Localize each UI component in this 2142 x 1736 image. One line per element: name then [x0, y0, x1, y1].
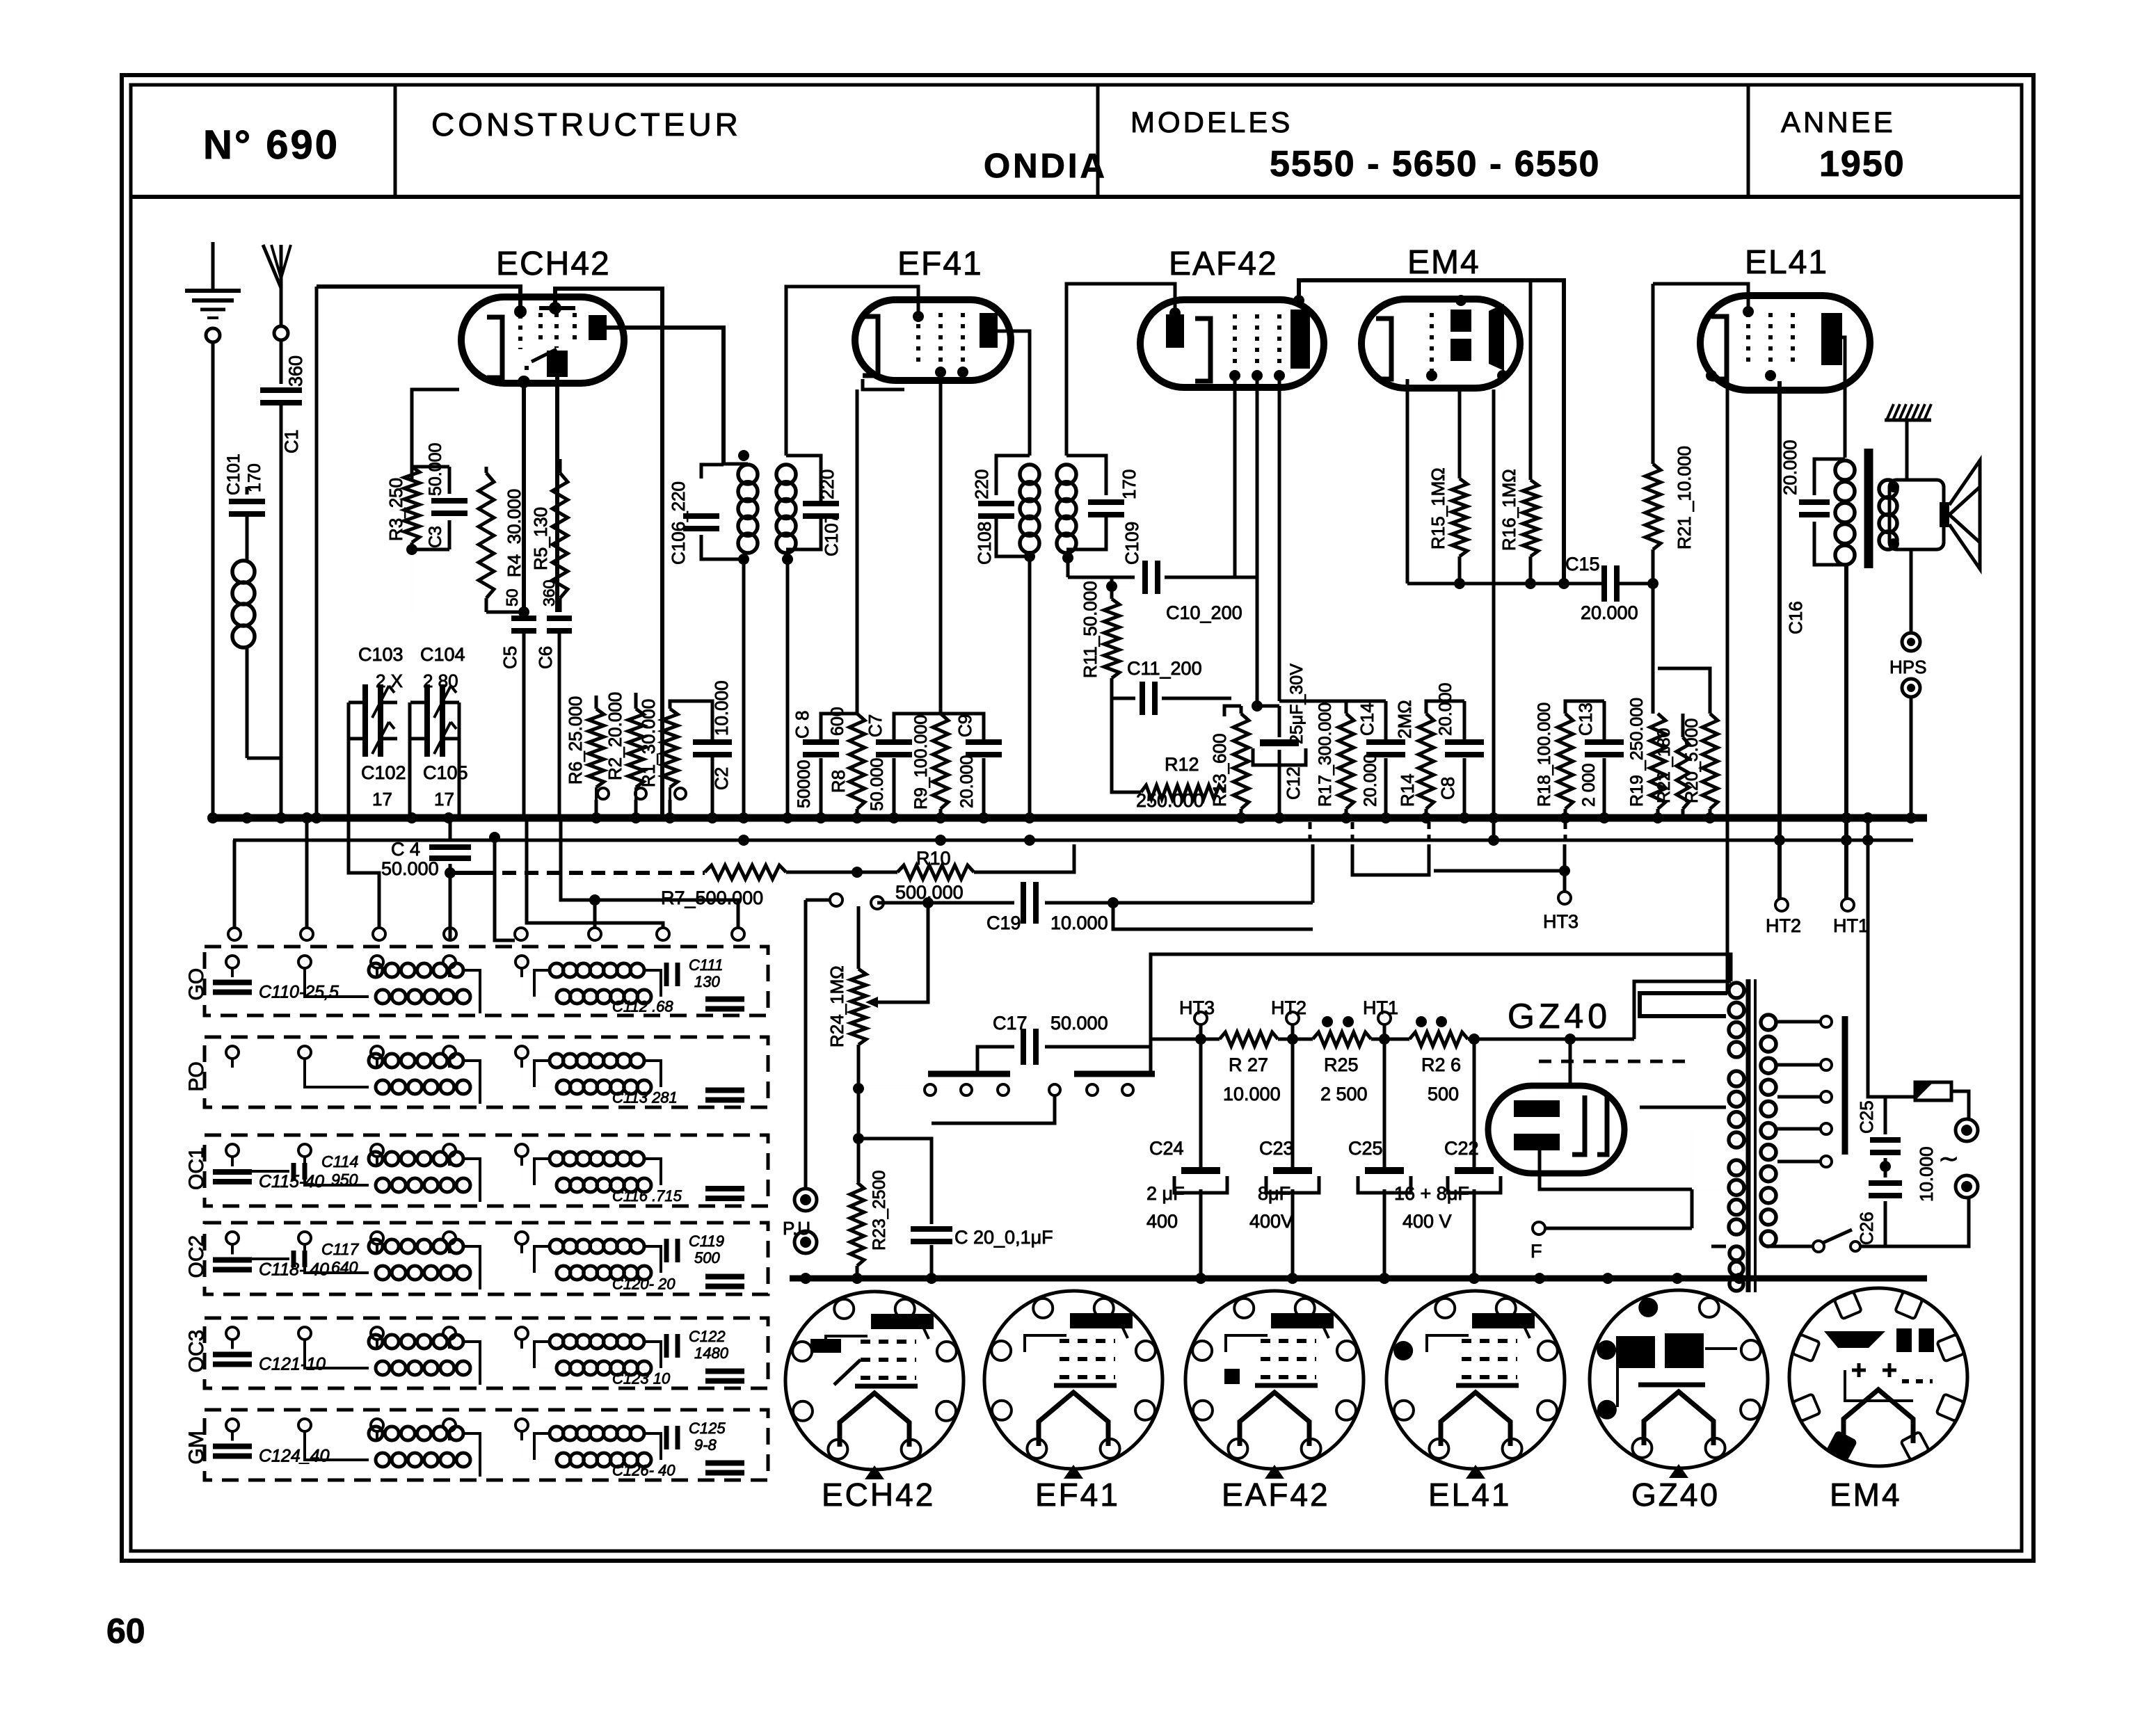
- wire pot feed: [877, 901, 983, 905]
- coil band OC2 transformer 2: [522, 1239, 661, 1280]
- svg-text:20.000: 20.000: [957, 755, 977, 808]
- EF41 grid 2: [938, 313, 943, 365]
- wire EAF42 pin drops: [1235, 376, 1279, 706]
- capacitor C6 360: [535, 580, 572, 818]
- coil band OC2 transformer 1: [305, 1239, 480, 1289]
- coil band OC3 capacitors: [213, 1349, 326, 1374]
- svg-text:EM4: EM4: [1830, 1477, 1902, 1513]
- EF41 grid 3: [961, 313, 965, 365]
- svg-text:220: 220: [971, 469, 992, 499]
- svg-text:C14: C14: [1357, 702, 1377, 736]
- svg-text:C112 .68: C112 .68: [612, 998, 673, 1015]
- output transformer secondary: [1879, 480, 1897, 549]
- socket GZ40: [1590, 1290, 1768, 1478]
- wire hatch to speaker: [1905, 420, 1909, 480]
- svg-text:ANNEE: ANNEE: [1781, 106, 1896, 138]
- socket ECH42 internals: [810, 1314, 934, 1386]
- svg-text:C1: C1: [281, 429, 302, 453]
- terminal PU top: [794, 1189, 817, 1211]
- feed wire 4: [449, 928, 451, 940]
- GZ40 dashed link: [1539, 1060, 1691, 1063]
- capacitor C22: [1444, 1039, 1501, 1278]
- svg-text:ECH42: ECH42: [822, 1477, 935, 1513]
- wire switch to mains: [1860, 1198, 1969, 1246]
- svg-text:R11_50.000: R11_50.000: [1080, 581, 1101, 678]
- IFT1 primary coil: [738, 455, 758, 553]
- wire c26 bottom: [1860, 1246, 1885, 1247]
- capacitor C26: [1856, 1146, 1937, 1246]
- socket EAF42 label: [1222, 1477, 1330, 1513]
- coil band GO transformer 1: [305, 963, 480, 1013]
- svg-text:50000: 50000: [794, 759, 814, 808]
- wire R4 bottom junction: [486, 606, 529, 618]
- wire R19 bracket: [1658, 668, 1683, 714]
- wire GZ40 filament: [1540, 1150, 1692, 1189]
- header text 1950: [1819, 144, 1905, 184]
- svg-text:1480: 1480: [694, 1344, 729, 1362]
- wire R7 to R10: [786, 867, 897, 878]
- coil band GO box: [185, 947, 768, 1015]
- svg-text:8μF: 8μF: [1258, 1183, 1290, 1204]
- capacitor C7 50.000: [865, 714, 941, 818]
- coil band GO right capacitors: [612, 956, 744, 1015]
- label EM4: [1407, 244, 1480, 281]
- coil band OC2 capacitors: [213, 1240, 359, 1280]
- svg-text:R2_20.000: R2_20.000: [605, 692, 625, 780]
- svg-text:R21 _10.000: R21 _10.000: [1674, 446, 1695, 549]
- capacitor C109 170: [1066, 456, 1142, 565]
- speaker cone: [1949, 460, 1980, 569]
- secondary tap terminals: [1821, 1016, 1832, 1167]
- capacitor C25b: [1856, 1097, 1901, 1152]
- wire HT1 to fuse row: [1868, 818, 1885, 1097]
- GZ40 cathode 1: [1572, 1095, 1585, 1155]
- EAF42 cathode: [1195, 319, 1210, 381]
- label GZ40: [1508, 997, 1611, 1036]
- wire top to C101: [216, 487, 281, 495]
- EAF42 diode plate: [1166, 314, 1184, 348]
- svg-text:R24_1MΩ: R24_1MΩ: [826, 965, 847, 1047]
- svg-text:C3: C3: [426, 526, 445, 548]
- header divider col1: [394, 85, 397, 197]
- svg-text:R14: R14: [1397, 773, 1418, 807]
- wire IFT1 secondary bottom to bus: [782, 554, 793, 818]
- tube EL41 envelope: [1700, 296, 1870, 390]
- resistor R22 180: [1654, 714, 1689, 818]
- coil band GO terminals: [226, 956, 528, 977]
- terminal HT2 psu: [1271, 997, 1306, 1039]
- coil band OC1 transformer 2: [522, 1152, 661, 1192]
- wire R10 right: [974, 844, 1074, 872]
- terminal mains bottom: [1956, 1175, 1978, 1198]
- wire C12 top: [1252, 700, 1279, 712]
- capacitor C11 200: [1112, 658, 1231, 715]
- svg-text:C123 10: C123 10: [612, 1370, 671, 1388]
- svg-text:C110-25,5: C110-25,5: [259, 983, 339, 1002]
- wire R14 C8 bracket: [1426, 701, 1464, 714]
- resistor R1 30.000: [638, 699, 678, 787]
- svg-text:∼: ∼: [1938, 1144, 1959, 1173]
- svg-text:C 20_0,1μF: C 20_0,1μF: [954, 1227, 1053, 1248]
- svg-text:C13: C13: [1575, 702, 1596, 736]
- coil band OC1 box: [185, 1135, 768, 1206]
- wire IFT1 primary bottom to bus: [742, 559, 746, 818]
- wire EL41 cathode loop: [1640, 993, 1727, 1016]
- EF41 cathode: [863, 316, 878, 376]
- svg-text:5550 - 5650 - 6550: 5550 - 5650 - 6550: [1270, 144, 1600, 184]
- EF41 anode: [980, 313, 998, 348]
- coil band OC1 transformer 1: [305, 1152, 480, 1202]
- output transformer primary: [1835, 460, 1855, 565]
- svg-text:EL41: EL41: [1745, 244, 1828, 281]
- capacitor C16 20.000: [1780, 440, 1845, 634]
- svg-text:360: 360: [540, 580, 558, 606]
- wire R16 bottom: [1529, 556, 1533, 584]
- capacitor C106 220: [668, 481, 719, 565]
- wire ECH42 anode to IFT1: [607, 328, 724, 464]
- EM4 grid: [1430, 313, 1434, 372]
- svg-text:1950: 1950: [1819, 144, 1905, 184]
- resistor R3 250: [385, 467, 419, 542]
- chassis hatch: [1885, 404, 1931, 420]
- wire R24 bottom: [853, 1045, 864, 1182]
- wire IFT1 primary top: [724, 450, 749, 464]
- AVC line: [1407, 578, 1603, 589]
- svg-text:C5: C5: [499, 646, 520, 669]
- EAF42 grid 1: [1233, 314, 1237, 369]
- feed wire 6: [527, 821, 663, 928]
- svg-text:17: 17: [434, 789, 454, 810]
- tube EM4 envelope: [1361, 299, 1520, 388]
- tube ECH42 envelope: [461, 297, 624, 383]
- svg-text:C106_220: C106_220: [668, 481, 689, 565]
- wire EM4 column: [1492, 389, 1496, 840]
- wire contact drop: [932, 1095, 1055, 1139]
- trimmer box wires: [349, 680, 459, 739]
- elbow U wire: [1352, 844, 1429, 875]
- resistor R14 2M: [1394, 700, 1434, 818]
- dashed stub c: [1428, 822, 1431, 843]
- terminal HT1 psu: [1363, 997, 1398, 1039]
- svg-text:R5_130: R5_130: [530, 507, 551, 570]
- capacitor C8 20.000: [1436, 683, 1484, 818]
- socket EM4: [1789, 1288, 1967, 1466]
- coil band OC1 terminals: [226, 1144, 528, 1166]
- resistor R12 250.000: [1112, 698, 1224, 811]
- socket EM4 label: [1830, 1477, 1902, 1513]
- label EL41: [1745, 244, 1828, 281]
- svg-text:50.000: 50.000: [1050, 1013, 1108, 1034]
- wire R1 C2 top: [636, 701, 712, 739]
- svg-text:C105: C105: [423, 762, 468, 783]
- wire to HT3 terminal: [1434, 865, 1570, 876]
- svg-text:HT3: HT3: [1179, 997, 1215, 1018]
- svg-text:N° 690: N° 690: [203, 122, 339, 168]
- svg-text:C111: C111: [689, 956, 723, 974]
- trimmer C102: [349, 721, 397, 757]
- speaker frame: [1888, 480, 1944, 549]
- resistor R18 100.000: [1535, 701, 1573, 818]
- resistor R21 10.000: [1645, 446, 1695, 549]
- coil band GM box: [185, 1410, 768, 1480]
- outer border frame: [122, 75, 2033, 1561]
- capacitor C17 50.000: [977, 1013, 1151, 1074]
- coil band PO capacitors: [0, 0, 1, 1]
- svg-text:9-8: 9-8: [694, 1436, 717, 1454]
- wire R13 top: [1224, 706, 1241, 716]
- svg-text:C122: C122: [689, 1328, 726, 1345]
- svg-text:GZ40: GZ40: [1631, 1477, 1720, 1513]
- wire rail b: [1371, 1034, 1409, 1045]
- resistor R16 1M: [1498, 469, 1538, 556]
- svg-text:HT1: HT1: [1363, 997, 1398, 1018]
- feed wire 2: [305, 818, 309, 928]
- EAF42 pin dots: [1169, 295, 1304, 381]
- svg-text:C26: C26: [1856, 1212, 1877, 1245]
- svg-text:10.000: 10.000: [1223, 1084, 1281, 1104]
- svg-text:400: 400: [1146, 1211, 1178, 1232]
- svg-text:C117: C117: [321, 1240, 359, 1258]
- resistor R4 30.000: [479, 467, 525, 612]
- ECH42 grid 3: [554, 313, 559, 348]
- wire IFT2 sec bottom: [1062, 552, 1073, 577]
- IFT1 secondary coil: [776, 465, 796, 553]
- coil band OC1 capacitors: [213, 1152, 358, 1191]
- capacitor C5 50: [499, 588, 536, 818]
- socket EF41 label: [1035, 1477, 1120, 1513]
- wire R3 col to bus: [411, 549, 413, 612]
- fuse: [1885, 1082, 1969, 1120]
- svg-text:C120- 20: C120- 20: [612, 1276, 676, 1293]
- HT rail: [1151, 1034, 1220, 1045]
- svg-text:C9: C9: [954, 714, 975, 737]
- transformer primary taps: [1640, 1107, 1726, 1280]
- wire ECH42 cathode drop: [522, 382, 526, 612]
- tube GZ40 envelope: [1488, 1086, 1624, 1173]
- capacitor C108 220: [971, 456, 1030, 565]
- terminal HT3 psu: [1179, 997, 1215, 1039]
- HT3 stub line: [1113, 903, 1313, 929]
- wire grid col to R21: [1652, 284, 1655, 464]
- wire rail to transformer: [1634, 981, 1731, 1039]
- ground terminal: [185, 242, 241, 818]
- transformer secondary winding: [1761, 1015, 1776, 1246]
- EL41 pin dots: [1706, 306, 1776, 381]
- coil band OC3 right capacitors: [612, 1328, 744, 1388]
- wire rail a: [1278, 1034, 1313, 1045]
- svg-text:C109: C109: [1121, 522, 1142, 565]
- capacitor C15 20.000: [1565, 554, 1656, 623]
- svg-text:EAF42: EAF42: [1169, 246, 1278, 282]
- terminal HT1: [1833, 899, 1869, 936]
- svg-text:C125: C125: [689, 1420, 726, 1437]
- svg-text:HT3: HT3: [1543, 911, 1578, 932]
- svg-text:EAF42: EAF42: [1222, 1477, 1330, 1513]
- dashed stub a: [1309, 822, 1312, 843]
- EL41 grid 2: [1768, 313, 1773, 369]
- header divider col2: [1096, 85, 1100, 197]
- label C103 2X: [358, 644, 403, 691]
- svg-text:2 000: 2 000: [1579, 763, 1599, 807]
- capacitor C19 10.000: [983, 882, 1313, 933]
- EL41 grid 1: [1746, 313, 1750, 369]
- svg-text:C22: C22: [1444, 1138, 1479, 1159]
- ECH42 hexode anode: [547, 351, 568, 377]
- output transformer core: [1864, 449, 1873, 568]
- header text ONDIA: [984, 147, 1108, 185]
- terminal R24 top: [830, 894, 842, 906]
- EAF42 anode: [1290, 310, 1310, 369]
- svg-text:50.000: 50.000: [868, 758, 887, 811]
- svg-text:R10: R10: [916, 848, 951, 869]
- wire R18 C13 bracket: [1565, 701, 1604, 714]
- wire osc grid loop: [555, 289, 662, 818]
- resistor R6 25.000: [565, 696, 604, 787]
- svg-text:C107: C107: [821, 513, 842, 556]
- dashed stub b: [1351, 822, 1354, 843]
- wire secondary to HPS: [1910, 549, 1913, 634]
- resistor R23 2500: [850, 1171, 889, 1278]
- coil band GM transformer 1: [305, 1426, 480, 1477]
- coil bank feed terminals: [228, 928, 744, 940]
- capacitor C14 20.000: [1357, 701, 1405, 818]
- wire GZ40 plate1 feed: [1540, 1061, 1570, 1100]
- transformer secondary taps: [1777, 1022, 1821, 1162]
- coil band OC2 right capacitors: [612, 1232, 744, 1293]
- svg-text:400 V: 400 V: [1402, 1211, 1452, 1232]
- wire EM4 to R16: [1529, 280, 1533, 480]
- svg-text:2MΩ: 2MΩ: [1394, 700, 1415, 739]
- svg-text:R22 _180: R22 _180: [1654, 728, 1674, 803]
- wire R3 C3 bottom: [406, 542, 449, 555]
- coil band OC3 transformer 2: [522, 1335, 661, 1375]
- EM4 anode plates: [1450, 310, 1471, 361]
- capacitor C20 0.1uF: [858, 1139, 1053, 1278]
- terminal PU bottom: [794, 1231, 817, 1253]
- svg-text:C8: C8: [1437, 777, 1458, 800]
- svg-text:R12: R12: [1165, 754, 1199, 775]
- svg-text:50.000: 50.000: [381, 858, 439, 879]
- svg-text:C108: C108: [974, 522, 995, 565]
- wire IFT2 sec top to EAF42: [1066, 284, 1175, 456]
- svg-text:ONDIA: ONDIA: [984, 147, 1108, 185]
- svg-text:R16_1MΩ: R16_1MΩ: [1498, 469, 1519, 551]
- coil band GM capacitors: [213, 1440, 330, 1466]
- label PU: [783, 1218, 815, 1239]
- page number 60: [106, 1612, 145, 1650]
- tube EF41 envelope: [855, 300, 1011, 380]
- capacitor C9 20.000: [941, 714, 1002, 818]
- label C105 17: [423, 762, 468, 810]
- ECH42 cathode: [487, 317, 502, 378]
- capacitor C24 2uF: [1146, 1039, 1227, 1278]
- svg-text:R19 _250.000: R19 _250.000: [1627, 698, 1647, 807]
- socket EL41 label: [1428, 1477, 1511, 1513]
- svg-text:500: 500: [1428, 1084, 1459, 1104]
- IFT2 secondary coil: [1057, 465, 1076, 553]
- label C104 280: [420, 644, 465, 691]
- svg-text:C113 281: C113 281: [612, 1089, 678, 1107]
- wire HPS to bus: [1910, 697, 1913, 818]
- coil band PO transformer 1: [305, 1054, 480, 1104]
- header text 5550-5650-6550: [1270, 144, 1600, 184]
- wire EL41 grid feed: [1653, 284, 1748, 313]
- header text CONSTRUCTEUR: [431, 106, 742, 143]
- wire ECH42 pin drop: [555, 377, 559, 612]
- svg-text:C114: C114: [321, 1152, 358, 1171]
- wire EL41 cathode drop: [1726, 381, 1729, 993]
- svg-text:R3_250: R3_250: [385, 478, 406, 541]
- svg-text:20.000: 20.000: [1436, 683, 1455, 736]
- svg-text:R20_5.000: R20_5.000: [1682, 718, 1702, 803]
- ECH42 grid 1: [514, 305, 527, 349]
- coil band GM terminals: [226, 1419, 528, 1440]
- EF41 grid 1: [916, 313, 920, 365]
- capacitor C4 50.000: [381, 818, 471, 940]
- label ECH42: [496, 246, 611, 282]
- chassis bus: [207, 812, 1927, 823]
- resistor R2 20.000: [605, 692, 644, 787]
- switch bar right: [1074, 1071, 1155, 1077]
- coil band PO right capacitors: [612, 1089, 744, 1107]
- trimmer C105: [410, 721, 459, 757]
- svg-text:600: 600: [828, 707, 847, 736]
- header text N 690: [203, 122, 339, 168]
- ECH42 anode: [589, 315, 607, 340]
- ECH42 triode link: [518, 349, 557, 388]
- svg-text:50.000: 50.000: [426, 443, 445, 496]
- svg-text:R8: R8: [828, 770, 849, 793]
- EL41 grid 3: [1791, 313, 1795, 369]
- wire GZ40 cathode right: [1607, 1126, 1692, 1127]
- svg-text:10.000: 10.000: [1916, 1146, 1937, 1202]
- svg-text:C 8: C 8: [792, 711, 813, 739]
- secondary screen bar: [1842, 1016, 1848, 1155]
- wire antenna to C1: [280, 340, 283, 384]
- svg-text:ECH42: ECH42: [496, 246, 611, 282]
- coil band GO capacitors: [213, 977, 339, 1002]
- svg-text:R15_1MΩ: R15_1MΩ: [1428, 467, 1448, 549]
- svg-text:HT2: HT2: [1271, 997, 1306, 1018]
- svg-text:C16: C16: [1785, 601, 1806, 634]
- coil band OC3 box: [185, 1318, 768, 1388]
- coil band PO transformer 2: [522, 1054, 661, 1094]
- header divider col3: [1747, 85, 1750, 197]
- resistor R11 50.000: [1080, 581, 1119, 678]
- terminal F: [1530, 1189, 1692, 1262]
- EAF42 grid 2: [1255, 314, 1259, 369]
- wire pot to switch lines: [858, 1074, 977, 1088]
- svg-text:C12: C12: [1283, 766, 1304, 800]
- terminal HT2: [1766, 899, 1801, 936]
- resistor R13 600: [1209, 706, 1249, 818]
- wire R3 top: [412, 467, 449, 480]
- GZ40 plate 2: [1514, 1134, 1560, 1150]
- wire trimmer col to bus: [349, 739, 459, 829]
- wire HT1 col: [1841, 565, 1852, 899]
- capacitor C3 50.000: [426, 443, 467, 549]
- svg-text:R 27: R 27: [1229, 1054, 1268, 1075]
- coil band GM right capacitors: [612, 1420, 744, 1479]
- switch bar left: [928, 1071, 1010, 1077]
- wire EF41 pin drops: [857, 376, 941, 714]
- svg-text:170: 170: [1119, 469, 1140, 499]
- EAF42 grid 3: [1277, 314, 1281, 369]
- svg-text:130: 130: [694, 973, 720, 990]
- wire EM4 cathode drop: [1406, 379, 1409, 584]
- wire R12 right up: [1224, 716, 1225, 792]
- socket GZ40 label: [1631, 1477, 1720, 1513]
